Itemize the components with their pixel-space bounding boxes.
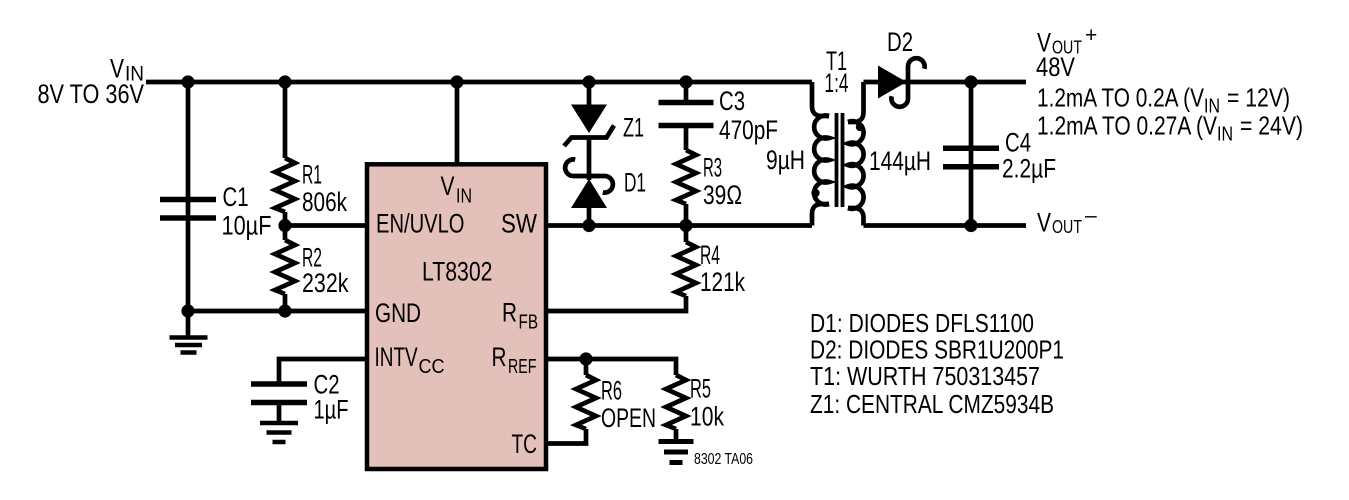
wire C1 ground stem [186,311,191,336]
node VIN / input rail wire (top) [146,80,812,85]
wire EN/UVLO pin connection [285,223,367,228]
zener Z1 bar [564,126,614,147]
capacitor C1 [160,200,216,219]
wire primary bottom lead [812,204,829,226]
svg-text:TC: TC [512,429,538,459]
svg-text:T1: WURTH 750313457: T1: WURTH 750313457 [810,361,1040,391]
svg-text:232k: 232k [302,268,349,298]
svg-text:1.2mA TO 0.2A (V: 1.2mA TO 0.2A (V [1037,83,1205,113]
wire V_OUT+ top output rail [864,80,1027,85]
wire primary top lead [812,82,829,116]
node input rail junction at Z1 [582,75,595,88]
wire C4 branch vertical [969,82,974,226]
svg-text:R5: R5 [690,373,711,403]
node input rail junction at C3 [679,75,692,88]
svg-text:= 24V): = 24V) [1240,111,1303,141]
capacitor C4 [943,148,999,167]
wire R6 top stub [584,359,589,375]
ground under C1 [170,338,208,353]
capacitor C2 [251,384,307,403]
transformer T1 secondary winding [848,121,864,209]
wire R2 top stub [283,226,288,241]
wire RREF rail [546,359,676,375]
svg-text:1:4: 1:4 [825,68,849,98]
svg-text:V: V [441,171,455,201]
wire secondary top lead [848,82,864,122]
resistor R6 [576,375,596,429]
svg-text:1.2mA TO 0.27A (V: 1.2mA TO 0.27A (V [1037,111,1218,141]
node output top junction [964,75,977,88]
svg-text:FB: FB [519,312,539,334]
node GND rail junction at R2 [278,304,291,317]
svg-text:144µH: 144µH [869,146,931,176]
wire C2 to ground stub [277,403,282,422]
svg-text:C3: C3 [719,86,745,116]
svg-text:GND: GND [375,298,421,328]
svg-text:IN: IN [1217,124,1233,146]
svg-text:R: R [492,342,507,372]
svg-text:121k: 121k [700,267,745,297]
resistor R5 [666,375,686,429]
wire C3 top stub [684,82,689,103]
diode D1 triangle [571,179,607,208]
svg-text:EN/UVLO: EN/UVLO [376,209,465,239]
wire TC pin to R6 [546,429,586,444]
resistor R4 [676,242,696,296]
svg-text:+: + [1085,24,1097,47]
svg-text:R6: R6 [601,375,622,405]
svg-text:V: V [1037,207,1051,237]
wire SW rail from IC to transformer [546,223,812,228]
svg-text:10µF: 10µF [222,211,272,241]
wire GND rail from C1 to IC GND pin [188,309,367,314]
transformer T1 primary winding [814,115,829,204]
svg-text:R1: R1 [302,160,322,190]
wire Z1 top stub [587,82,592,105]
ground under C2 [260,423,298,442]
wire VIN pin stub vertical [455,82,460,165]
wire R1 top stub [283,82,288,158]
svg-text:D2: DIODES SBR1U200P1: D2: DIODES SBR1U200P1 [810,335,1064,365]
wire C3 to R3 stub [684,126,689,151]
transformer secondary phasing dot [856,123,864,131]
svg-text:806k: 806k [302,187,347,217]
svg-text:LT8302: LT8302 [422,257,493,287]
wire INTVCC pin to C2 [279,359,367,384]
svg-text:INTV: INTV [375,342,418,372]
transformer T1 core [835,113,839,207]
wire R3 bottom stub [684,204,689,226]
svg-text:C1: C1 [223,182,249,212]
wire V_OUT- bottom output rail [864,223,1027,228]
svg-text:IN: IN [456,185,472,207]
svg-text:470pF: 470pF [719,115,778,145]
node EN/UVLO junction [278,219,291,232]
svg-text:10k: 10k [690,401,724,431]
node output bottom junction [964,219,977,232]
node SW-D1 junction [582,219,595,232]
svg-text:9µH: 9µH [766,145,805,175]
diode D1 schottky bar [565,159,613,192]
resistor R2 [275,240,295,294]
svg-text:D2: D2 [887,27,913,57]
wire secondary bottom lead [848,208,864,226]
svg-text:48V: 48V [1036,52,1075,82]
wire C1 branch vertical [186,82,191,311]
svg-text:OUT: OUT [1052,217,1082,237]
wire R4 top stub [684,226,689,243]
zener Z1 triangle [571,105,607,134]
ground under R5 [659,442,694,463]
svg-text:SW: SW [501,209,537,239]
svg-text:–: – [1085,204,1097,227]
op-amp U1 LT8302 IC body [367,164,546,469]
svg-text:= 12V): = 12V) [1227,83,1290,113]
wire D1 bottom stub [587,208,592,226]
svg-text:Z1: Z1 [623,112,644,142]
svg-text:R3: R3 [703,153,722,183]
resistor R1 [275,158,295,212]
svg-text:39Ω: 39Ω [703,180,742,210]
svg-text:OPEN: OPEN [601,403,656,433]
node SW-R3 junction [679,219,692,232]
svg-text:Z1: CENTRAL CMZ5934B: Z1: CENTRAL CMZ5934B [810,389,1054,419]
node GND rail junction at C1 [181,304,194,317]
wire R1 bottom to EN node [283,212,288,226]
wire R2 bottom stub [283,294,288,311]
svg-text:2.2µF: 2.2µF [1002,154,1056,184]
node input rail junction at VIN pin [450,75,463,88]
transformer primary phasing dot [811,189,819,197]
diode D2 triangle [878,66,907,99]
svg-text:REF: REF [508,356,537,378]
resistor R3 [676,150,696,204]
svg-text:CC: CC [419,356,445,378]
svg-text:8302 TA06: 8302 TA06 [694,451,753,468]
svg-text:D1: DIODES DFLS1100: D1: DIODES DFLS1100 [810,308,1034,338]
svg-text:D1: D1 [624,168,646,198]
wire R5 bottom stub [674,429,679,441]
svg-text:R: R [502,298,517,328]
svg-text:R4: R4 [700,240,720,270]
node RREF junction [579,352,592,365]
svg-text:1µF: 1µF [314,395,349,425]
diode D2 schottky bar [891,58,924,107]
wire Z1 to D1 stem [587,138,592,181]
node input rail junction at R1 [278,75,291,88]
node input rail junction at C1 [181,75,194,88]
capacitor C3 [659,103,714,126]
wire RFB pin to R4 [546,296,686,311]
svg-text:8V TO 36V: 8V TO 36V [38,79,145,109]
